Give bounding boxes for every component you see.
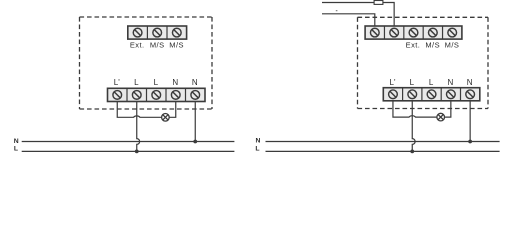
stray dot artifact [336, 10, 338, 11]
TB2 screw terminal N (pin 4) [171, 91, 180, 100]
TB4 screw terminal L (pin 3) [427, 90, 436, 99]
junction dot on N bus (left unit) [193, 140, 197, 144]
right N bus line [266, 141, 500, 143]
left L bus line [22, 150, 235, 152]
svg-text:M/S: M/S [169, 41, 184, 50]
right top terminal block TB3 [365, 26, 462, 39]
svg-text:L: L [154, 78, 159, 87]
svg-text:Ext.: Ext. [406, 41, 421, 50]
TB3 screw terminal pin 2 [390, 28, 399, 37]
right bottom terminal block TB4 (L&#39; L L N N) [383, 88, 480, 101]
TB3 screw terminal Ext. [409, 28, 418, 37]
lamp E1 [162, 114, 170, 122]
wire from TB4 L' down and right toward lamp, hop over L wire [393, 101, 437, 117]
TB3 screw terminal M/S (pin 4) [429, 28, 438, 37]
wire from TB4 N (pin 5) down to N bus [469, 101, 471, 142]
svg-text:M/S: M/S [150, 41, 165, 50]
TB1 screw terminal Ext. [133, 28, 142, 37]
svg-text:L: L [410, 78, 415, 87]
svg-text:N: N [192, 78, 198, 87]
wire from TB2 L' down and right toward lamp, hop over L wire [117, 102, 161, 118]
supply wire through fuse to TB3 pin 2 [322, 3, 394, 27]
junction dot on L bus (left unit) [135, 150, 139, 154]
wire from TB2 N (pin 5) down to N bus [194, 102, 196, 142]
TB4 screw terminal N (pin 4) [447, 90, 456, 99]
TB4 screw terminal N (pin 5) [466, 90, 475, 99]
wire from TB2 L (pin 2) down to L bus, hop over N bus [137, 102, 140, 152]
TB4 screw terminal L (pin 2) [408, 90, 417, 99]
TB4 screw terminal L' (pin 1) [389, 90, 398, 99]
left N bus line [22, 141, 235, 143]
lamp E2 [437, 113, 445, 121]
TB1 screw terminal M/S (pin 2) [153, 28, 162, 37]
left top terminal block TB1 (Ext. M/S M/S) [128, 26, 187, 39]
svg-text:N: N [467, 78, 473, 87]
svg-text:N: N [172, 78, 178, 87]
svg-text:N: N [448, 78, 454, 87]
right L bus line [266, 150, 500, 152]
svg-text:L': L' [390, 78, 396, 87]
left unit dashed enclosure U1 [80, 17, 213, 109]
right unit dashed enclosure U2 [358, 17, 489, 108]
TB2 screw terminal L (pin 3) [152, 91, 161, 100]
svg-text:L: L [134, 78, 139, 87]
junction dot on L bus (right unit) [410, 150, 414, 154]
svg-text:N: N [14, 138, 19, 145]
left bottom terminal block TB2 (L&#39; L L N N) [108, 88, 206, 101]
svg-text:L': L' [114, 78, 120, 87]
svg-text:N: N [255, 138, 260, 145]
TB2 screw terminal L' (pin 1) [113, 91, 122, 100]
TB1 screw terminal M/S (pin 3) [172, 28, 181, 37]
svg-text:L: L [255, 145, 259, 152]
TB3 screw terminal pin 1 [370, 28, 379, 37]
svg-text:M/S: M/S [425, 41, 440, 50]
svg-text:L: L [429, 78, 434, 87]
wire from lamp E1 to TB2 N (pin 4) [169, 102, 176, 118]
wire from TB4 L (pin 2) down to L bus, hop over N bus [412, 101, 415, 152]
TB2 screw terminal L (pin 2) [132, 91, 141, 100]
svg-text:L: L [14, 146, 18, 153]
TB3 screw terminal M/S (pin 5) [448, 28, 457, 37]
supply wire to TB3 pin 1 [322, 14, 375, 26]
svg-text:Ext.: Ext. [130, 41, 145, 50]
fuse F1 [374, 1, 383, 5]
TB2 screw terminal N (pin 5) [191, 91, 200, 100]
junction dot on N bus (right unit) [468, 140, 472, 144]
svg-text:M/S: M/S [445, 41, 460, 50]
wire from lamp E2 to TB4 N (pin 4) [445, 101, 451, 117]
